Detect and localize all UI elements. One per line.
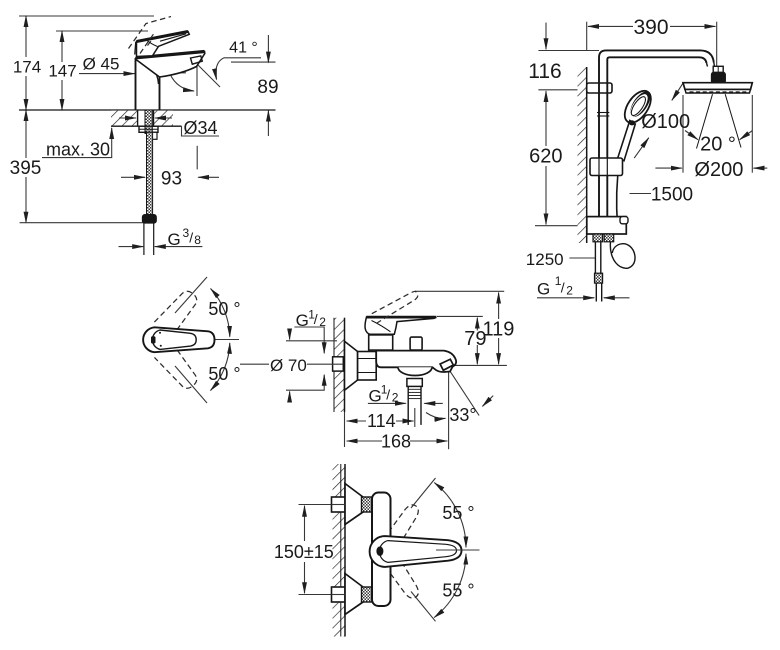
svg-text:50 °: 50 ° — [208, 364, 240, 384]
svg-text:33°: 33° — [449, 405, 476, 425]
svg-text:Ø100: Ø100 — [641, 111, 690, 133]
svg-text:2: 2 — [319, 315, 326, 329]
svg-text:114: 114 — [367, 411, 396, 431]
svg-text:Ø34: Ø34 — [183, 118, 217, 138]
svg-text:41 °: 41 ° — [229, 40, 258, 57]
svg-text:20 °: 20 ° — [700, 134, 736, 156]
svg-text:2: 2 — [566, 284, 573, 298]
svg-text:2: 2 — [392, 391, 399, 405]
svg-text:620: 620 — [529, 146, 562, 168]
svg-text:55 °: 55 ° — [442, 580, 474, 600]
svg-text:8: 8 — [194, 233, 201, 247]
svg-text:max. 30: max. 30 — [46, 140, 110, 160]
svg-text:50 °: 50 ° — [208, 299, 240, 319]
svg-text:89: 89 — [257, 77, 278, 98]
svg-text:/: / — [561, 280, 565, 296]
svg-text:1250: 1250 — [526, 250, 564, 269]
svg-text:93: 93 — [161, 169, 182, 190]
svg-text:G: G — [296, 311, 309, 330]
svg-text:55 °: 55 ° — [442, 503, 474, 523]
svg-text:147: 147 — [48, 62, 76, 81]
svg-text:150±15: 150±15 — [274, 542, 334, 562]
svg-text:395: 395 — [10, 158, 42, 179]
svg-text:168: 168 — [381, 432, 411, 452]
svg-text:Ø200: Ø200 — [694, 159, 743, 181]
svg-text:/: / — [314, 311, 318, 327]
svg-text:/: / — [386, 387, 390, 403]
svg-text:174: 174 — [13, 58, 41, 77]
svg-text:390: 390 — [633, 16, 668, 39]
svg-text:Ø 70: Ø 70 — [270, 356, 307, 375]
svg-text:/: / — [189, 230, 193, 246]
svg-text:G: G — [168, 230, 181, 249]
svg-text:G: G — [537, 280, 550, 299]
svg-text:79: 79 — [464, 328, 486, 350]
svg-text:116: 116 — [528, 60, 561, 83]
svg-text:Ø 45: Ø 45 — [83, 54, 120, 73]
svg-text:119: 119 — [483, 319, 515, 341]
svg-text:1500: 1500 — [651, 185, 693, 206]
